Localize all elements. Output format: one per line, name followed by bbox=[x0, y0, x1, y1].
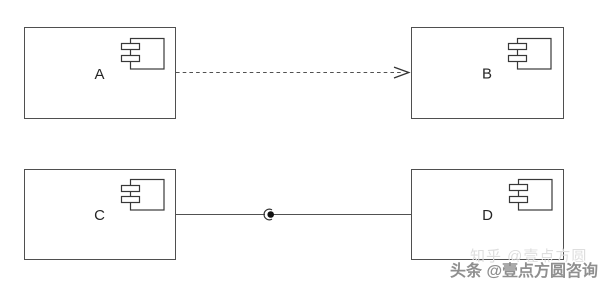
svg-text:A: A bbox=[94, 66, 104, 83]
component B icon tab 2 bbox=[509, 56, 527, 62]
component D box bbox=[412, 170, 564, 260]
assembly wire C to socket bbox=[176, 214, 266, 216]
component C box bbox=[25, 170, 176, 260]
component B box bbox=[412, 28, 564, 119]
watermark zhihu (light) bbox=[470, 245, 587, 266]
watermark toutiao (dark) bbox=[450, 257, 598, 281]
dependency dashed wire A to B bbox=[176, 72, 403, 74]
svg-text:D: D bbox=[482, 207, 493, 224]
component B icon body bbox=[518, 39, 552, 70]
svg-text:C: C bbox=[94, 207, 105, 224]
component A icon body bbox=[131, 39, 165, 70]
component A icon tab 1 bbox=[122, 44, 140, 50]
component C icon body bbox=[131, 180, 165, 211]
assembly wire ball to D bbox=[274, 214, 412, 216]
component D icon body bbox=[519, 180, 553, 211]
component A box bbox=[25, 28, 176, 119]
component D icon tab 1 bbox=[510, 185, 528, 191]
socket half-circle (required interface) bbox=[264, 209, 272, 220]
component D icon tab 2 bbox=[510, 197, 528, 203]
component B icon tab 1 bbox=[509, 44, 527, 50]
component C icon tab 1 bbox=[122, 186, 140, 192]
component C icon tab 2 bbox=[122, 197, 140, 203]
component A icon tab 2 bbox=[122, 56, 140, 62]
dependency open arrowhead at B bbox=[394, 67, 409, 78]
svg-text:B: B bbox=[482, 66, 492, 83]
ball (provided interface) bbox=[267, 211, 274, 218]
